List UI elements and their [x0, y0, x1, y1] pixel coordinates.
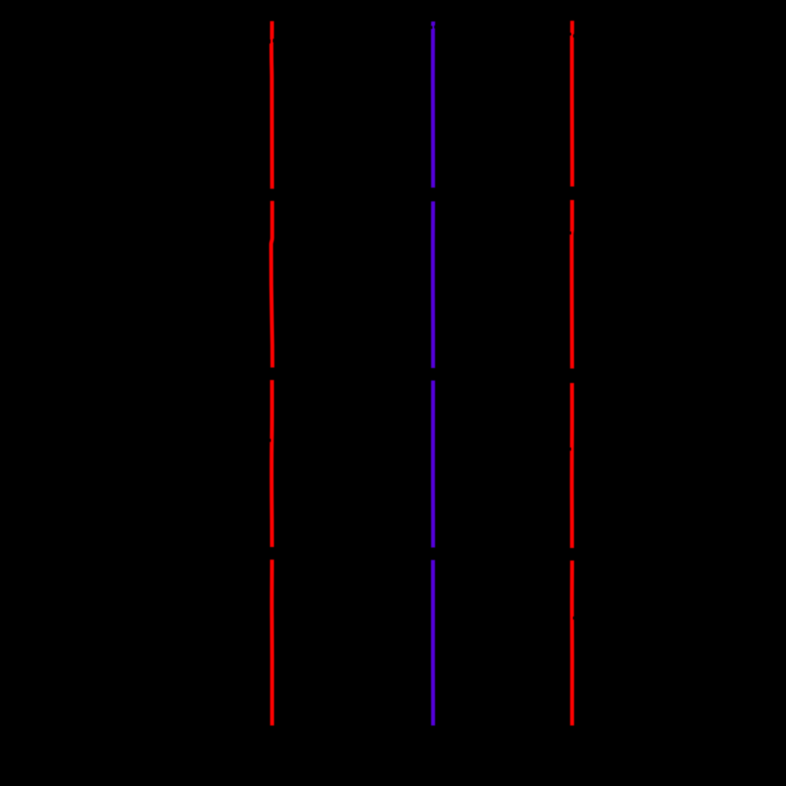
red dashed vline 1 segment 2 — [271, 201, 272, 368]
red dashed vline 2 segment 2 — [570, 200, 574, 369]
pinch on red vline 2 at y~618 right notch — [573, 616, 575, 619]
pinch on red vline 2 at y~35 right notch — [573, 34, 575, 37]
pinch on red vline 2 at y~233 left notch — [569, 231, 571, 234]
red dashed vline 1 (x~272) segment 1 — [269, 21, 274, 189]
pinch on red vline 1 at y~41 right notch — [273, 39, 275, 43]
purple dashed vline (x~433) segment 1 — [431, 22, 435, 188]
pinch on purple vline at y~27 right notch — [434, 25, 436, 28]
red dashed vline 2 segment 4 — [570, 561, 574, 726]
pinch marks (width narrowings of the sketchy strokes) — [268, 25, 576, 619]
purple dashed vline segment 4 — [431, 560, 435, 726]
pinch on red vline 1 at y~41 left notch — [268, 39, 271, 43]
red dashed vline 2 segment 3 — [570, 383, 574, 548]
pinch on red vline 1 at y~440 left notch — [268, 439, 270, 442]
red dashed vline 2 (x~572) segment 1 — [570, 21, 574, 187]
red dashed vline 1 segment 4 — [270, 560, 274, 726]
purple dashed vline segment 2 — [431, 201, 435, 368]
pinch on red vline 2 at y~34 left notch — [569, 33, 572, 36]
red dashed vline 1 segment 3 — [270, 380, 274, 547]
pinch on red vline 2 at y~449 left notch — [569, 447, 572, 450]
purple dashed vline segment 3 — [431, 381, 435, 548]
pinch on purple vline at y~27 left notch — [430, 26, 433, 29]
